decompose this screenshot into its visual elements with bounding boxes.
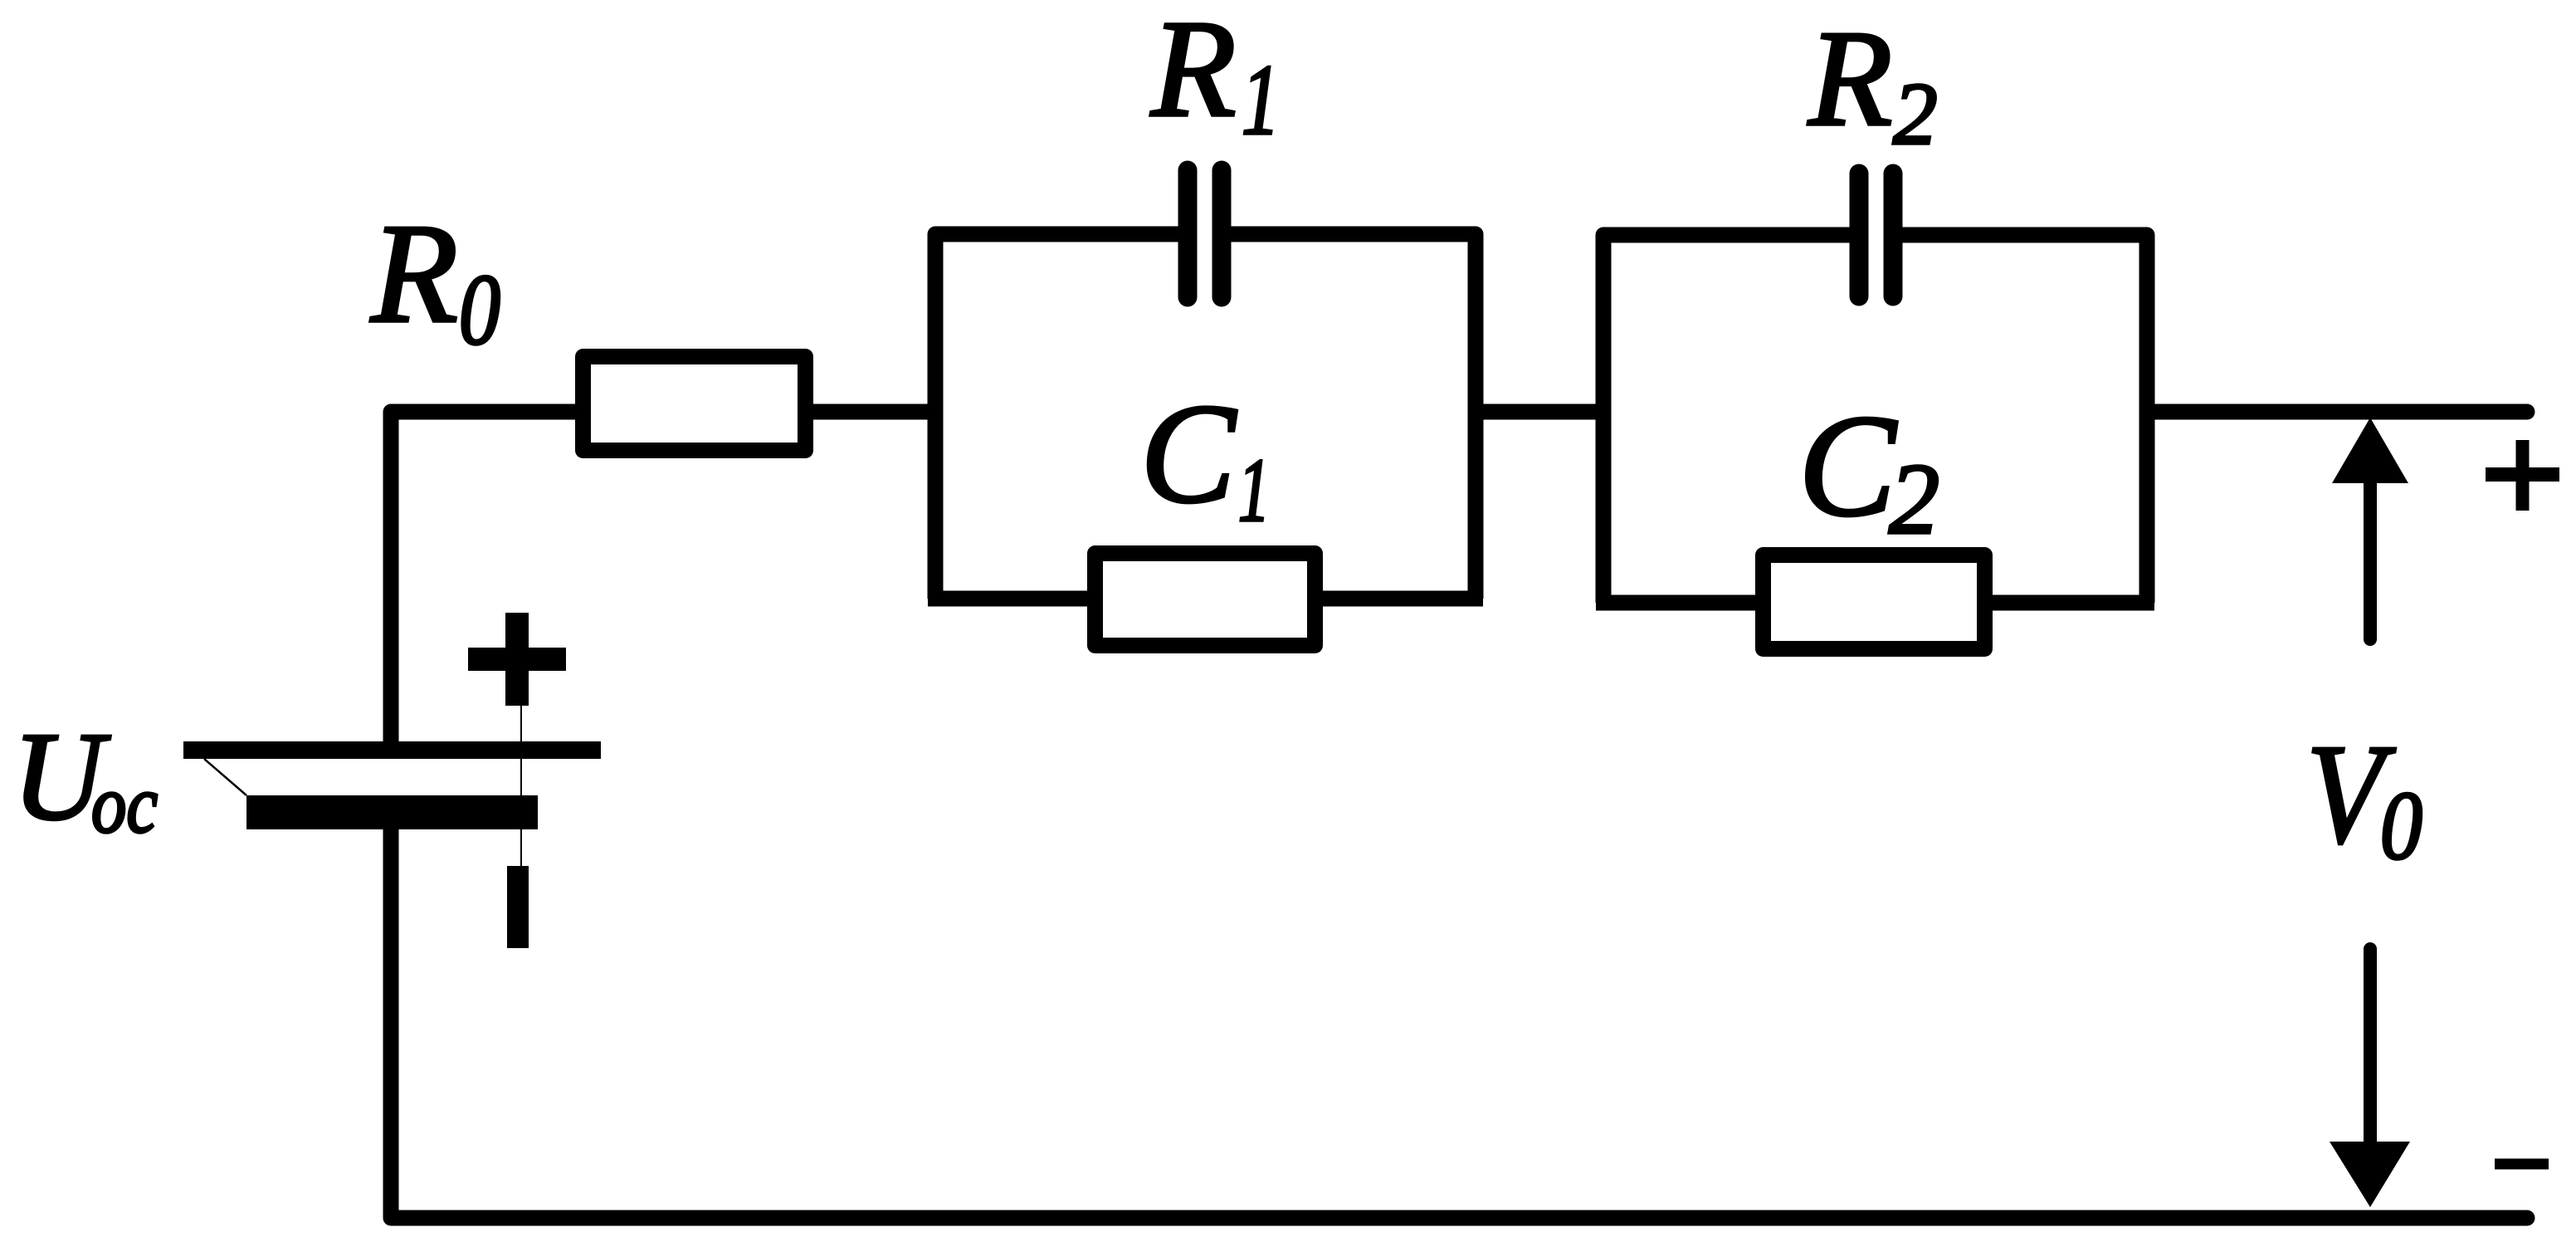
svg-text:1: 1 <box>1242 44 1280 156</box>
svg-text:0: 0 <box>2380 771 2422 880</box>
svg-text:0: 0 <box>459 254 500 366</box>
svg-text:C: C <box>1140 375 1237 533</box>
svg-text:R: R <box>370 195 458 353</box>
svg-text:C: C <box>1798 385 1898 547</box>
svg-text:2: 2 <box>1893 66 1938 164</box>
svg-text:R: R <box>1808 2 1892 154</box>
svg-text:2: 2 <box>1889 443 1939 555</box>
svg-text:oc: oc <box>91 758 158 850</box>
svg-text:1: 1 <box>1238 440 1270 540</box>
svg-text:R: R <box>1150 0 1237 146</box>
